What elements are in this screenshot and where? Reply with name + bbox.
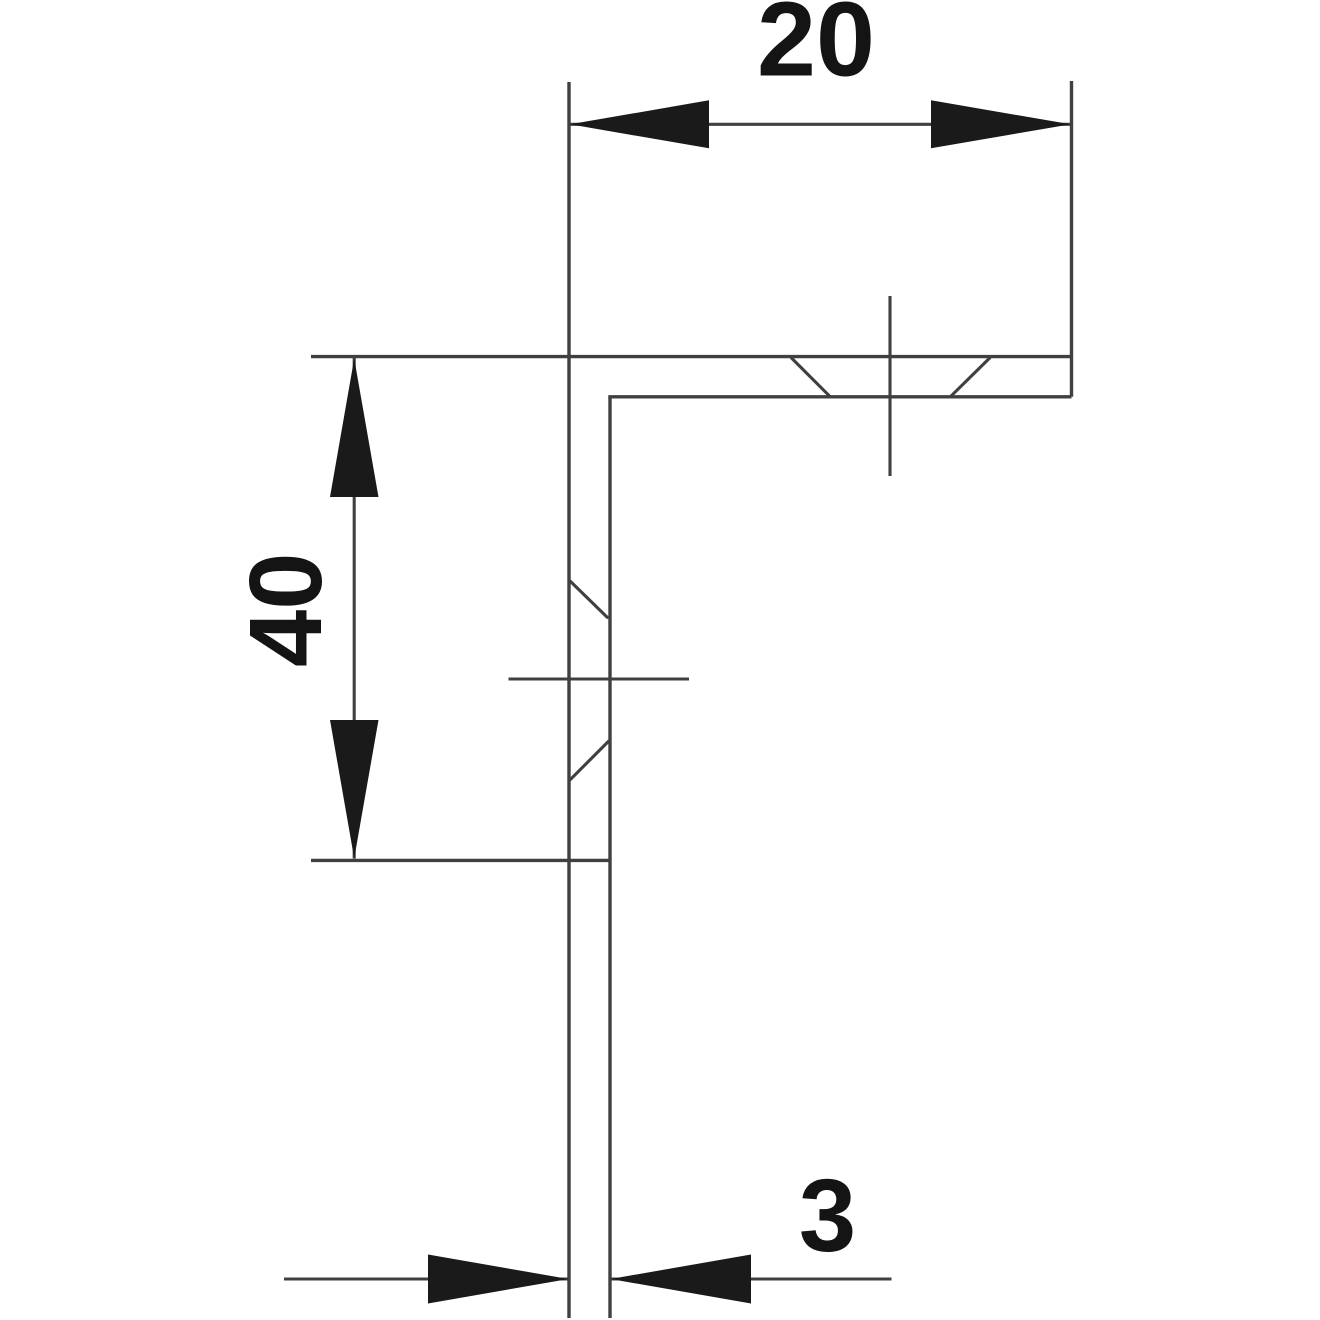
arrow 40 top [330, 359, 379, 498]
leg inner edge [608, 397, 611, 1318]
leg countersink chamfer lower [570, 742, 608, 780]
flange top edge [311, 355, 1072, 358]
leg hole centerline [509, 677, 690, 680]
flange bottom edge [608, 395, 1071, 398]
flange hole centerline [888, 296, 891, 476]
arrow 3 left [428, 1255, 569, 1304]
svg-text:3: 3 [799, 1158, 856, 1273]
arrow 40 bottom [330, 720, 379, 859]
arrow 20 left [570, 100, 709, 148]
arrow 20 right [931, 100, 1071, 148]
svg-text:40: 40 [228, 552, 343, 667]
extension line 40 bottom [311, 859, 610, 862]
dimension line 3 left [284, 1277, 569, 1280]
flange countersink chamfer right [951, 358, 989, 396]
leg countersink chamfer upper [570, 581, 607, 618]
flange right edge / extension line [1070, 81, 1073, 397]
dimension line 3 right [610, 1277, 892, 1280]
arrow 3 right [611, 1255, 752, 1304]
dimension line 40 [353, 358, 356, 859]
svg-text:20: 20 [757, 0, 875, 99]
leg outer edge / extension line [567, 82, 570, 1318]
flange countersink chamfer left [792, 358, 830, 396]
dimension line 20 [569, 123, 1072, 126]
